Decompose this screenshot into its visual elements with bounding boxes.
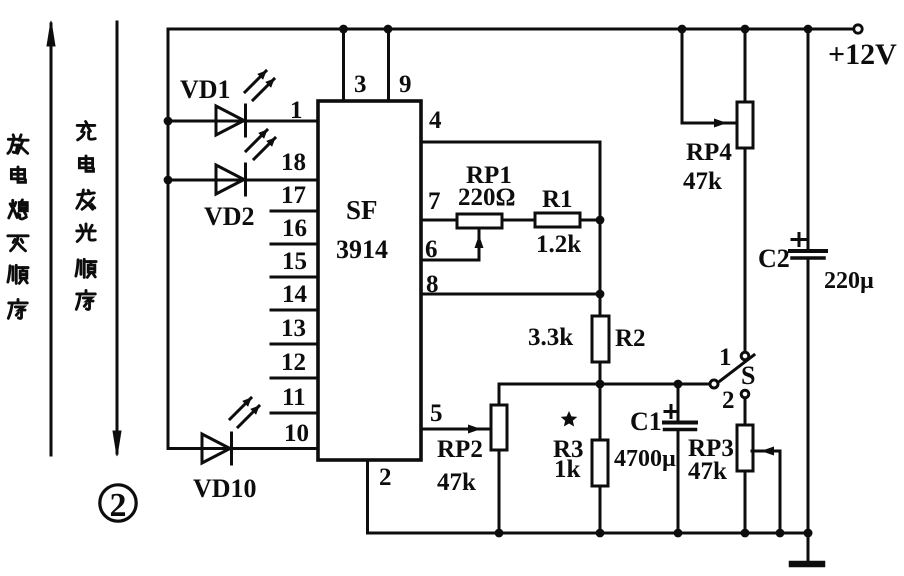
- junction dot ground node: [804, 529, 813, 538]
- junction dot pin 8 node: [596, 290, 605, 299]
- LED VD2: [216, 130, 275, 195]
- node +12V terminal: [854, 25, 862, 33]
- resistor R1: [535, 213, 580, 227]
- wire mid rail to switch: [499, 383, 709, 386]
- junction dot VD2 anode: [164, 176, 173, 185]
- wire top rail: [168, 28, 854, 31]
- label shun charge char5: [76, 259, 96, 277]
- svg-text:+12V: +12V: [828, 38, 897, 71]
- label pin 2: [379, 464, 392, 491]
- potentiometer RP4: [737, 102, 753, 352]
- label switch 2: [722, 387, 735, 414]
- junction dot R2 R3 node: [596, 380, 605, 389]
- svg-text:VD2: VD2: [204, 202, 255, 231]
- svg-text:S: S: [741, 361, 755, 390]
- wire pin 17 stub: [271, 210, 318, 213]
- svg-text:6: 6: [425, 236, 438, 263]
- label RP4 47k: [683, 139, 732, 195]
- label switch S: [741, 361, 755, 390]
- label dian charge char2: [79, 156, 93, 171]
- switch S: [710, 352, 754, 398]
- svg-text:R2: R2: [615, 325, 646, 352]
- wire pin 15 stub: [271, 276, 318, 279]
- label pin 12: [281, 349, 306, 376]
- label switch 1: [719, 344, 732, 371]
- wire VD1 row pin 1: [168, 120, 318, 123]
- svg-text:RP2: RP2: [437, 436, 483, 463]
- wire left vertical bus: [167, 29, 170, 449]
- label figure number circled 2: [100, 485, 136, 521]
- label RP1 220ohm: [458, 162, 516, 211]
- label pin 9: [399, 71, 412, 98]
- wire pin 14 stub: [271, 309, 318, 312]
- ground: [792, 561, 822, 568]
- annotation arrow up discharge order: [47, 21, 55, 455]
- wire pin 2 drop: [366, 460, 369, 533]
- label +12V: [828, 38, 897, 71]
- wire VD2 row pin 18: [168, 179, 318, 182]
- wire pin 9 to top rail: [387, 29, 390, 101]
- label chong charge char1: [77, 121, 95, 139]
- label pin 6: [425, 236, 438, 263]
- svg-text:16: 16: [282, 215, 307, 242]
- svg-text:C1: C1: [630, 407, 662, 436]
- junction dot C1 bottom: [674, 529, 683, 538]
- label VD1: [180, 75, 231, 104]
- svg-text:5: 5: [430, 400, 443, 427]
- label VD2: [204, 202, 255, 231]
- LED VD1: [216, 71, 274, 136]
- junction dot VD1 anode: [164, 117, 173, 126]
- svg-text:RP4: RP4: [686, 139, 732, 166]
- svg-text:220Ω: 220Ω: [458, 184, 516, 211]
- label fa charge char3: [77, 190, 95, 209]
- label pin 16: [282, 215, 307, 242]
- label pin 3: [354, 71, 367, 98]
- label 3.3k: [528, 324, 573, 351]
- label C2 220u: [758, 244, 874, 294]
- label pin 14: [282, 281, 308, 308]
- wire RP4 branch: [744, 29, 747, 102]
- wire pin 7: [421, 219, 457, 222]
- svg-text:47k: 47k: [683, 168, 722, 195]
- svg-text:3914: 3914: [336, 235, 388, 264]
- wire pin 3 to top rail: [342, 29, 345, 101]
- wire pin 12 stub: [271, 377, 318, 380]
- label xi discharge char3: [9, 200, 27, 219]
- svg-text:9: 9: [399, 71, 412, 98]
- junction dot C1 node: [674, 380, 683, 389]
- svg-text:1.2k: 1.2k: [536, 231, 581, 258]
- label pin 17: [281, 182, 306, 209]
- wire bottom rail: [368, 532, 809, 535]
- label R1 1.2k: [536, 186, 581, 258]
- label RP2 47k: [437, 436, 483, 496]
- label mie discharge char4: [8, 236, 28, 251]
- wire pin 6 wiper RP1: [421, 259, 479, 262]
- svg-text:2: 2: [379, 464, 392, 491]
- label guang charge char4: [77, 224, 95, 242]
- svg-text:SF: SF: [346, 195, 378, 225]
- svg-text:3: 3: [354, 71, 367, 98]
- wire switch 2 to RP3: [744, 398, 747, 425]
- svg-text:14: 14: [282, 281, 308, 308]
- wire VD10 row pin 10: [168, 447, 318, 450]
- svg-text:4: 4: [429, 107, 442, 134]
- junction dot R3 bottom: [596, 529, 605, 538]
- label pin 4: [429, 107, 442, 134]
- svg-text:2: 2: [110, 487, 127, 524]
- svg-text:47k: 47k: [688, 458, 727, 485]
- wire pin 4: [421, 142, 600, 316]
- label RP3 47k: [688, 435, 734, 485]
- label dian discharge char2: [11, 167, 25, 182]
- label star: [561, 411, 578, 427]
- svg-text:15: 15: [282, 248, 307, 275]
- label pin 15: [282, 248, 307, 275]
- label pin 8: [426, 271, 439, 298]
- svg-text:8: 8: [426, 271, 439, 298]
- wire pin 11 stub: [271, 412, 318, 415]
- IC U1 SF3914: [318, 101, 421, 460]
- label pin 10: [284, 420, 309, 447]
- wire RP1 to R1: [502, 219, 535, 222]
- LED VD10: [202, 398, 259, 464]
- capacitor C2: [790, 29, 826, 560]
- svg-text:12: 12: [281, 349, 306, 376]
- junction dot RP3 bottom: [741, 529, 750, 538]
- label xu charge char6: [76, 290, 95, 309]
- resistor R3: [592, 384, 608, 533]
- svg-text:3.3k: 3.3k: [528, 324, 573, 351]
- wire pin 13 stub: [271, 343, 318, 346]
- svg-text:4700µ: 4700µ: [614, 446, 676, 472]
- junction dot RP3 wiper bottom: [776, 529, 785, 538]
- label R2: [615, 325, 646, 352]
- svg-text:13: 13: [281, 315, 306, 342]
- junction dot pin 9 top: [384, 25, 393, 34]
- junction dot pin 3 top: [339, 25, 348, 34]
- svg-text:C2: C2: [758, 244, 790, 273]
- potentiometer RP2: [491, 384, 507, 533]
- junction dot RP4 wiper top: [678, 25, 687, 34]
- label pin 7: [428, 188, 441, 215]
- svg-text:2: 2: [722, 387, 735, 414]
- label pin 18: [281, 149, 306, 176]
- svg-text:VD1: VD1: [180, 75, 231, 104]
- svg-text:R1: R1: [542, 186, 573, 213]
- label pin 13: [281, 315, 306, 342]
- svg-text:1k: 1k: [554, 456, 581, 483]
- svg-text:18: 18: [281, 149, 306, 176]
- label xu discharge char6: [8, 299, 27, 318]
- wire pin 8: [421, 293, 600, 296]
- label C1 4700u: [614, 407, 676, 472]
- svg-text:VD10: VD10: [193, 474, 257, 503]
- annotation arrow down charge order: [113, 22, 121, 456]
- label shun discharge char5: [8, 265, 28, 283]
- svg-text:11: 11: [282, 384, 306, 411]
- wire R1 to node: [580, 219, 600, 222]
- potentiometer RP1: [457, 214, 502, 260]
- svg-text:1: 1: [290, 97, 303, 124]
- svg-text:220µ: 220µ: [824, 268, 874, 294]
- junction dot R1 node: [596, 216, 605, 225]
- capacitor C1: [664, 384, 696, 533]
- label R3 1k: [553, 436, 584, 483]
- svg-text:10: 10: [284, 420, 309, 447]
- svg-text:7: 7: [428, 188, 441, 215]
- label pin 5: [430, 400, 443, 427]
- junction dot C2 top: [804, 25, 813, 34]
- label fang discharge char1: [8, 135, 28, 153]
- label VD10: [193, 474, 257, 503]
- label pin 11: [282, 384, 306, 411]
- wire pin 16 stub: [271, 243, 318, 246]
- wire pin 5 wiper RP2: [421, 425, 491, 434]
- junction dot RP2 bottom: [495, 529, 504, 538]
- svg-text:17: 17: [281, 182, 306, 209]
- label SF 3914: [336, 195, 388, 264]
- potentiometer RP3: [737, 425, 780, 533]
- wire RP4 wiper: [682, 29, 737, 128]
- label pin 1: [290, 97, 303, 124]
- svg-text:1: 1: [719, 344, 732, 371]
- svg-text:47k: 47k: [437, 469, 476, 496]
- resistor R2: [592, 316, 609, 384]
- junction dot RP4 top: [741, 25, 750, 34]
